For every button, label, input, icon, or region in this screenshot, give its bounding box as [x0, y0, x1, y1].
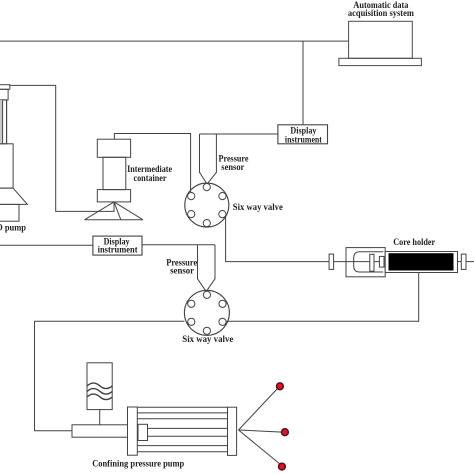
- core holder end clamp outer box: [346, 248, 385, 277]
- label pressure sensor 2: [166, 258, 197, 276]
- reservoir wave 3: [87, 394, 112, 400]
- ISCO pump piston column: [0, 100, 7, 144]
- confining pump piston rod: [72, 425, 138, 437]
- wire valve1 to core holder: [226, 216, 389, 262]
- fan line to sample 3: [239, 430, 281, 465]
- sample dot 2: [282, 429, 289, 436]
- svg-text:Confining pressure pump: Confining pressure pump: [92, 458, 184, 468]
- computer (automatic data acquisition system) screen: [349, 21, 413, 58]
- label pressure sensor 1: [219, 154, 249, 172]
- six way valve 1 body: [185, 183, 229, 227]
- wire display2 to pressure sensor 2: [142, 244, 215, 246]
- confining pump piston head: [138, 424, 148, 440]
- ISCO pump head cap: [0, 85, 10, 90]
- ISCO pump base box: [0, 204, 19, 221]
- svg-text:sensor: sensor: [170, 266, 194, 276]
- intermediate container bottom cap: [97, 190, 130, 202]
- confining pump left plate: [128, 407, 138, 455]
- valve1 port upper-right: [219, 193, 226, 200]
- wire branch to display instrument 1: [302, 41, 304, 125]
- wire pressure sensor 1 to display instrument 1: [200, 133, 278, 135]
- valve2 port top: [203, 291, 210, 298]
- svg-text:container: container: [134, 173, 167, 183]
- sample dot 1: [277, 383, 284, 390]
- valve2 port bottom: [203, 327, 210, 334]
- wire valve2 to confining pressure pump: [35, 321, 185, 431]
- ISCO pump body: [0, 144, 13, 188]
- intermediate container top cap: [97, 139, 130, 157]
- svg-text:acquisition system: acquisition system: [348, 8, 414, 18]
- label core holder: [393, 237, 435, 247]
- label six way valve 1: [233, 202, 283, 212]
- pressure sensor 2 funnel: [198, 245, 216, 291]
- reservoir wave 2: [87, 389, 112, 395]
- svg-text:Six way valve: Six way valve: [182, 334, 233, 344]
- svg-text:Core holder: Core holder: [393, 237, 435, 247]
- valve2 port lower-left: [188, 318, 195, 325]
- intermediate container stand legs: [85, 202, 143, 220]
- six way valve 2 body: [184, 290, 229, 335]
- wire core holder down to valve 2: [226, 273, 418, 322]
- computer base: [339, 58, 422, 65]
- core holder shell: [385, 252, 457, 273]
- core holder inlet fitting: [329, 254, 334, 269]
- reservoir wave 1: [87, 383, 112, 389]
- confining pump reservoir: [87, 363, 112, 410]
- label confining pressure pump: [92, 458, 184, 468]
- label ISCO pump (clipped at left edge): [0, 223, 26, 233]
- pressure sensor 1 funnel: [200, 134, 217, 184]
- confining pump cylinder rods: [137, 407, 227, 452]
- display instrument 1 box: [278, 125, 328, 144]
- label intermediate container: [127, 164, 172, 183]
- fan line to sample 1: [239, 388, 279, 431]
- label automatic data acquisition system: [348, 0, 414, 18]
- valve1 port top: [203, 184, 210, 191]
- valve2 port upper-right: [219, 300, 226, 307]
- core holder outlet fitting: [461, 254, 466, 269]
- valve2 port upper-left: [188, 300, 195, 307]
- ISCO pump base trapezoid: [0, 188, 27, 204]
- core holder plunger bar: [370, 254, 374, 271]
- wire display2 left feed: [0, 244, 93, 246]
- valve1 port bottom: [203, 220, 210, 227]
- core holder small bar: [379, 256, 384, 267]
- fan line to sample 2: [239, 430, 283, 432]
- intermediate container body: [103, 157, 126, 189]
- svg-text:sensor: sensor: [221, 162, 244, 172]
- svg-text:Six way valve: Six way valve: [233, 202, 283, 212]
- wire outlet to edge: [466, 261, 474, 263]
- valve1 port lower-left: [188, 211, 195, 218]
- display instrument 2 box: [93, 236, 142, 255]
- wire core holder right stub: [458, 261, 462, 263]
- svg-text:instrument: instrument: [98, 244, 138, 254]
- label display instrument 1: [285, 125, 322, 144]
- wire data-acquisition bus: [0, 40, 349, 42]
- sample dot 3: [279, 463, 286, 470]
- valve2 port lower-right: [219, 318, 226, 325]
- ISCO pump upper block: [0, 89, 8, 100]
- confining pump right plate: [228, 407, 237, 455]
- core holder end clamp inner sleeve: [354, 252, 384, 272]
- valve1 port upper-left: [188, 193, 195, 200]
- wire reservoir stub: [99, 410, 101, 425]
- label six way valve 2: [182, 334, 233, 344]
- wire ISCO pump to intermediate container bottom: [10, 85, 114, 211]
- core holder core (black): [389, 253, 454, 270]
- svg-text:ISCO pump: ISCO pump: [0, 223, 26, 233]
- valve1 port lower-right: [219, 211, 226, 218]
- svg-text:instrument: instrument: [285, 134, 322, 144]
- label display instrument 2: [98, 236, 138, 254]
- wire container top to six way valve 1: [114, 134, 190, 193]
